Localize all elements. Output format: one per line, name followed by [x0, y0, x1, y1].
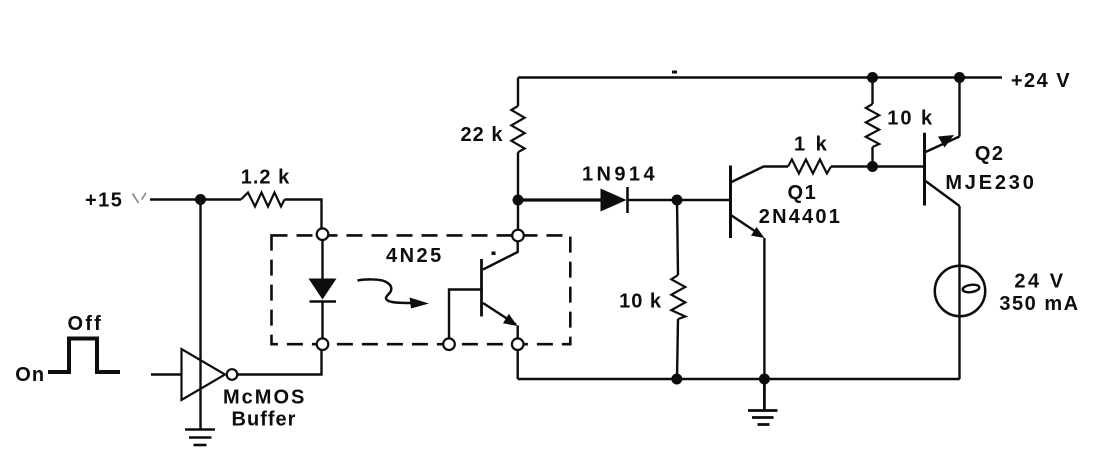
Q1 collector and wire to 1k	[732, 167, 789, 183]
Q1 emitter with arrow	[732, 216, 765, 380]
phototransistor collector	[483, 242, 518, 270]
junction node B	[672, 195, 683, 206]
svg-text:Buffer: Buffer	[232, 409, 297, 431]
phototransistor emitter with arrow	[483, 303, 518, 339]
LED anode wire	[321, 239, 323, 279]
svg-text:+15: +15	[85, 190, 123, 212]
svg-text:+24 V: +24 V	[1011, 70, 1071, 92]
wire node D to diode (thick)	[518, 198, 601, 201]
optocoupler pin 4 terminal	[512, 338, 524, 350]
resistor 1 k zigzag	[788, 160, 831, 174]
optocoupler U2 4N25 dashed box	[272, 235, 571, 344]
wire opto pin 4 down to bottom rail	[517, 350, 519, 379]
junction on rail at Q2	[954, 72, 965, 83]
inverter output bubble	[227, 369, 238, 380]
optocoupler pin 5 terminal	[512, 230, 524, 242]
wire diode to node B	[628, 199, 678, 202]
resistor 22 k zigzag	[511, 106, 524, 152]
wire 10k middle to rail	[677, 319, 678, 379]
wire R1 to optocoupler pin 1	[285, 200, 322, 230]
wire node A down to buffer/ground	[199, 200, 201, 430]
svg-text:Q1: Q1	[788, 182, 818, 204]
LED cathode bar	[310, 300, 337, 303]
speck inside box	[492, 252, 496, 256]
optocoupler pin 1 terminal	[317, 228, 329, 240]
junction node A	[195, 194, 206, 205]
junction node D	[513, 195, 524, 206]
inverter input wire	[151, 373, 182, 375]
svg-text:Q2: Q2	[975, 143, 1005, 165]
wire node C to Q2 base	[873, 165, 925, 167]
resistor 10 k (middle) zigzag	[671, 275, 685, 319]
inverter U1 McMOS buffer triangle	[182, 349, 226, 400]
junction node C	[867, 161, 878, 172]
node +15V supply label	[85, 190, 146, 212]
svg-text:4N25: 4N25	[386, 245, 444, 267]
transistor Q2 base bar	[923, 133, 926, 206]
phototransistor base wire to pin 6	[449, 290, 481, 340]
optical coupling squiggle arrow	[358, 279, 430, 308]
bottom rail wire	[518, 378, 960, 380]
Q2 emitter from rail with arrow into base	[926, 78, 960, 153]
ground (buffer)	[185, 430, 215, 446]
speck on top rail	[672, 71, 677, 74]
wire 10k right to rail	[871, 78, 873, 105]
svg-text:1 k: 1 k	[794, 134, 829, 156]
phototransistor base bar	[480, 259, 483, 317]
svg-text:On: On	[15, 364, 45, 386]
svg-text:10 k: 10 k	[887, 107, 934, 129]
pulse waveform	[48, 339, 120, 373]
wire node C up to 10k right	[871, 147, 873, 167]
wire 1k to node C	[831, 165, 873, 167]
top +24V rail	[518, 76, 1002, 79]
wire rail to 22k	[517, 78, 519, 107]
svg-text:McMOS: McMOS	[223, 387, 306, 409]
svg-text:Off: Off	[67, 313, 102, 335]
wire node B to Q1 base	[677, 199, 730, 201]
diode D2 1N914	[601, 187, 628, 213]
junction on rail at Q1 emitter / ground	[759, 374, 770, 385]
svg-text:22 k: 22 k	[461, 124, 504, 146]
svg-text:10 k: 10 k	[619, 291, 662, 313]
svg-text:24 V: 24 V	[1014, 270, 1065, 292]
junction on rail at 10k	[671, 374, 682, 385]
optocoupler pin 6 terminal	[443, 338, 455, 350]
Q2 collector down to lamp	[926, 181, 960, 379]
wire node D down to opto pin 5	[517, 200, 519, 230]
svg-text:1.2 k: 1.2 k	[241, 167, 290, 189]
svg-text:2N4401: 2N4401	[759, 206, 842, 228]
optocoupler pin 2 terminal	[317, 338, 329, 350]
wire node B down to 10k	[677, 200, 678, 275]
wire buffer output to optocoupler pin 2	[237, 350, 321, 375]
lamp filament loop	[962, 284, 980, 293]
ground (main)	[748, 379, 778, 425]
svg-text:350 mA: 350 mA	[999, 293, 1079, 315]
svg-text:MJE230: MJE230	[945, 172, 1036, 194]
LED cathode wire	[321, 303, 323, 340]
resistor R1 1.2 k	[241, 193, 285, 207]
junction on rail at 10k right	[867, 72, 878, 83]
resistor 10 k (right) zigzag	[866, 104, 879, 147]
svg-text:1N914: 1N914	[582, 164, 658, 186]
wire +15V lead to node A	[150, 198, 241, 200]
wire 22k to node D	[517, 152, 519, 200]
transistor Q1 base bar	[729, 166, 732, 239]
LED D1 triangle	[309, 279, 337, 300]
lamp circle	[935, 266, 985, 316]
